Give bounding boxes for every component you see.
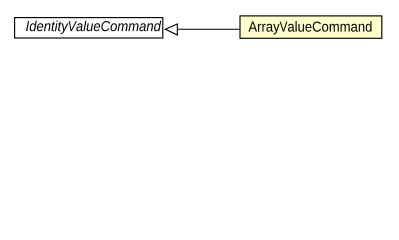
class box ArrayValueCommand	[240, 16, 382, 38]
label IdentityValueCommand (italic, outlined text)	[26, 21, 161, 34]
label ArrayValueCommand (outlined text)	[248, 21, 371, 34]
inheritance arrow (hollow triangle)	[165, 24, 240, 35]
class box IdentityValueCommand	[15, 18, 163, 38]
wire	[177, 28, 240, 30]
